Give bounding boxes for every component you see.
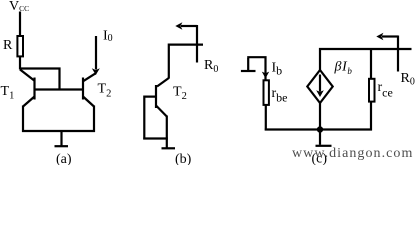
transistor Q T1	[20, 70, 35, 107]
wire rce top lead	[370, 49, 372, 79]
svg-text:(b): (b)	[175, 152, 192, 165]
svg-text:I0: I0	[103, 29, 113, 45]
wire base to ground (b)	[144, 97, 156, 140]
wire collector node crossbar (b)	[169, 45, 203, 79]
svg-text:rce: rce	[378, 80, 393, 100]
dependent source beta-Ib diamond	[307, 70, 332, 103]
wire input top lead with Ib arrow	[247, 57, 269, 80]
wire R0 test arrow (c)	[376, 33, 398, 72]
svg-text:rbe: rbe	[272, 86, 288, 105]
svg-text:T1: T1	[1, 84, 15, 102]
wire R bottom	[19, 57, 21, 70]
wire base bus T1-T2	[35, 88, 84, 90]
wire I0 collector lead with arrow	[92, 36, 100, 75]
svg-text:R0: R0	[204, 58, 218, 75]
svg-text:(a): (a)	[56, 152, 72, 165]
wire bottom rail (c)	[265, 128, 372, 130]
svg-text:R0: R0	[401, 71, 415, 87]
wire rbe bottom	[265, 105, 267, 131]
svg-text:Ib: Ib	[272, 61, 283, 78]
junction node dot	[317, 126, 323, 132]
svg-text:www.diangon.com: www.diangon.com	[292, 146, 413, 161]
svg-text:T2: T2	[98, 82, 112, 100]
wire test-current arrow (b)	[175, 22, 197, 62]
transistor Q T2	[83, 73, 96, 106]
svg-text:βIb: βIb	[334, 60, 353, 77]
resistor rbe	[264, 80, 269, 105]
ground (b)	[162, 147, 176, 149]
wire diamond bottom	[319, 103, 321, 131]
wire bottom rail (a)	[22, 130, 95, 132]
svg-text:R: R	[3, 38, 13, 53]
wire T1 emitter down	[22, 106, 24, 133]
wire emitter down (b)	[166, 116, 168, 148]
wire rce bottom	[370, 102, 372, 131]
ground (c input side)	[241, 58, 256, 71]
ground (c bottom)	[316, 130, 332, 146]
wire Vcc to R	[19, 12, 21, 36]
ground (a)	[55, 131, 69, 146]
resistor R	[17, 36, 23, 56]
wire T2 emitter down	[93, 106, 95, 133]
wire bottom rail (b)	[143, 137, 168, 139]
wire collector-base tie top	[20, 69, 60, 91]
resistor rce	[369, 79, 375, 102]
transistor Q T2b	[156, 78, 169, 117]
wire top rail (c)	[320, 49, 412, 70]
svg-text:T2: T2	[173, 85, 187, 103]
